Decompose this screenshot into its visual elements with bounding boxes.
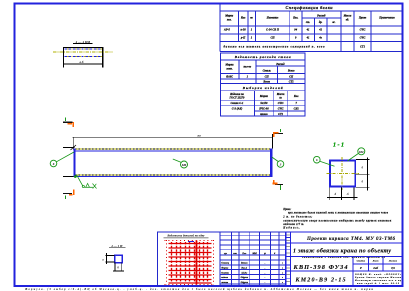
svg-text:Расход: Расход [276,63,285,66]
svg-text:4е: 4е [318,37,322,40]
svg-text:Всего: Всего [287,70,295,73]
svg-text:лишая: лишая [220,281,229,284]
svg-text:Листов: Листов [388,260,398,263]
svg-text:гы: гы [197,133,200,137]
svg-text:Марка: Марка [225,64,235,67]
svg-text:СТ1: СТ1 [278,113,284,116]
svg-text:СП: СП [270,37,275,40]
svg-text:СП: СП [289,76,294,79]
svg-text:Ведомость деталей на одну: Ведомость деталей на одну [166,233,205,238]
svg-text:Название: Название [266,17,279,20]
svg-text:г: г [282,277,283,279]
svg-text:АР-5: АР-5 [223,29,231,32]
svg-text:Вал-1: Вал-1 [240,268,247,270]
svg-text:41: 41 [318,29,322,32]
svg-text:С-34 СВ П: С-34 СВ П [266,29,280,32]
svg-text:С-3 (АЯ): С-3 (АЯ) [232,108,243,111]
svg-text:Кол: Кол [240,17,246,20]
svg-text:94: 94 [294,29,297,32]
svg-text:Спецификация балки: Спецификация балки [286,5,334,10]
svg-text:6: 6 [316,158,318,162]
svg-text:Марка: Марка [259,95,269,98]
svg-text:Ело: Ело [241,253,247,255]
svg-text:Лист: Лист [372,260,379,263]
svg-text:Обручи: Обручи [241,276,249,279]
svg-text:Марка: Марка [224,15,234,18]
svg-text:кол-во: кол-во [243,66,251,69]
svg-text:Масса: Масса [343,15,352,18]
svg-text:Ведомость расхода стали: Ведомость расхода стали [234,55,291,59]
svg-text:1|9: 1|9 [391,266,395,270]
svg-text:СЧС: СЧС [360,29,366,32]
svg-text:-: - [265,277,266,279]
svg-text:Масса: Масса [276,93,285,96]
svg-text:р-П: р-П [240,37,246,40]
svg-text:БЧС-98: БЧС-98 [258,108,269,111]
svg-text:Р: Р [360,266,362,270]
svg-text:Ы-Вл: Ы-Вл [240,272,248,274]
svg-text:ОБЩЕЕ И. акад. «ПРОЕКТ»: ОБЩЕЕ И. акад. «ПРОЕКТ» [355,273,401,276]
svg-text:5х150: 5х150 [260,102,268,105]
svg-text:Осадки: Осадки [221,271,229,274]
svg-text:вс.: вс. [332,21,335,24]
svg-text:Выборка изделий: Выборка изделий [242,85,283,90]
svg-text:СЧС: СЧС [278,102,284,105]
svg-text:41: 41 [306,37,310,40]
svg-text:кг: кг [279,97,281,100]
svg-text:ГОСТ 23279: ГОСТ 23279 [229,97,246,100]
svg-text:Бунит Аталл строит Москва: Бунит Аталл строит Москва [354,276,402,279]
svg-text:элем.: элем. [225,68,233,71]
svg-text:б: б [362,181,364,184]
svg-text:Сетка С-1: Сетка С-1 [231,102,245,105]
svg-text:КВП-398 ФУЗ4: КВП-398 ФУЗ4 [293,264,348,271]
svg-text:Ф16С: Ф16С [226,76,233,79]
svg-text:задела: задела [220,276,229,279]
svg-text:Сталь: Сталь [263,70,272,73]
svg-text:6: 6 [53,162,55,166]
svg-text:3: 3 [279,162,282,166]
svg-text:Ветал: Ветал [240,263,248,265]
svg-text:Кол: Кол [293,95,299,98]
svg-text:-б: -б [346,193,349,196]
svg-text:СЯ1: СЯ1 [294,108,300,111]
svg-text:динамо вся тюмень авиастроение: динамо вся тюмень авиастроение самарканд… [224,45,326,48]
svg-text:СП: СП [265,76,270,79]
svg-text:1: 1 [247,76,249,79]
svg-text:-б: -б [334,193,337,196]
svg-text:итого: итого [260,113,268,116]
svg-text:ед.: ед. [346,19,350,22]
svg-text:БМ: БМ [181,163,187,167]
svg-text:КМ20-В9 2-15: КМ20-В9 2-15 [295,278,346,284]
svg-text:Кол.: Кол. [292,17,299,20]
svg-text:1 этаж обвязки крана по объект: 1 этаж обвязки крана по объекту [293,248,391,255]
svg-text:ф: ф [264,252,266,255]
svg-text:луг: луг [223,253,227,255]
svg-text:-: - [265,272,266,274]
svg-text:б: б [274,252,276,255]
svg-text:б: б [117,267,119,270]
svg-text:Проект каркаса ТМ4. МУ 03-ТМ6: Проект каркаса ТМ4. МУ 03-ТМ6 [306,237,396,242]
svg-text:2 м. не делается;: 2 м. не делается; [282,215,312,218]
svg-text:г: г [282,272,283,274]
svg-text:Приве: Приве [358,17,367,20]
svg-text:1: 1 [251,37,253,40]
svg-text:при монтаже балок нижней зоны: при монтаже балок нижней зоны к монтажны… [288,212,389,215]
svg-text:41: 41 [306,29,310,32]
svg-text:Надпись.: Надпись. [282,227,300,230]
svg-text:мш: мш [232,253,237,255]
svg-text:во: во [250,17,253,20]
svg-text:-: - [265,263,266,265]
svg-text:Ферма: Ферма [221,267,229,270]
svg-text:Стадия: Стадия [357,260,366,263]
svg-text:г: г [282,268,283,270]
svg-text:отделам 2/7 т.: отделам 2/7 т. [283,223,304,226]
svg-text:б: б [362,167,364,170]
svg-text:7: 7 [295,102,297,105]
svg-text:МЫ: МЫ [251,253,257,255]
svg-text:г: г [282,263,283,265]
svg-text:ваш город д. 1 тел. 00-15: ваш город д. 1 тел. 00-15 [357,282,400,285]
svg-text:СЧС: СЧС [278,108,284,111]
svg-text:СТ1: СТ1 [360,45,366,48]
svg-text:СЧС: СЧС [360,37,366,40]
svg-text:БМ: БМ [358,150,364,154]
svg-text:Примечание: Примечание [378,17,395,20]
svg-text:Изделия по: Изделия по [229,93,244,96]
svg-text:ст.: ст. [306,21,310,24]
svg-text:Прим.:: Прим.: [282,208,291,211]
svg-text:Обручи: Обручи [241,281,249,284]
svg-text:к-38: к-38 [241,29,247,32]
svg-text:1-1: 1-1 [333,143,344,149]
svg-text:Формула. (3 выбор с/9-А)-ВЦ об: Формула. (3 выбор с/9-А)-ВЦ об Москва-ц.… [25,288,373,291]
svg-text:9: 9 [295,37,297,40]
svg-text:Расход: Расход [317,15,326,18]
svg-text:поз.: поз. [227,19,232,22]
svg-text:а-б: а-б [80,61,84,64]
svg-text:сантехническую опору плотность: сантехническую опору плотностью отбирать… [283,219,392,222]
svg-text:сантименты с Акмолой обл. немн: сантименты с Акмолой обл. немного навало… [302,256,386,259]
svg-text:2иб: 2иб [372,266,378,270]
svg-text:др.: др. [319,21,323,24]
svg-text:а: а [102,258,104,261]
svg-text:Институт стальных игл и кц: Институт стальных игл и кц [354,280,402,282]
svg-text:г: г [282,282,283,284]
svg-text:1: 1 [251,29,253,32]
svg-text:Свинец: Свинец [221,262,229,265]
